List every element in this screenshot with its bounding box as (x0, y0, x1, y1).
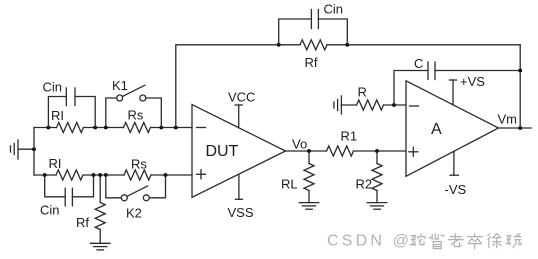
node K2 left stub dot (104, 173, 108, 177)
node Vo (307, 149, 311, 153)
wire lower rail segment 2 (83, 174, 124, 176)
wire lower rail segment 1 (34, 174, 56, 176)
resistor R1 (327, 146, 354, 156)
ground (R input, sideways) (334, 96, 342, 114)
svg-text:Cin: Cin (43, 80, 63, 95)
resistor RI (upper) (57, 123, 84, 133)
watermark glyph 骁 (506, 234, 521, 248)
watermark glyph 背 (429, 234, 444, 249)
capacitor C (feedback of A) (394, 62, 520, 105)
svg-text:VSS: VSS (228, 205, 254, 220)
capacitor Cin (top feedback bypass) (279, 10, 348, 45)
VSS pin (235, 174, 242, 199)
node Rf left dot (277, 43, 281, 47)
resistor RI (lower) (56, 170, 83, 180)
svg-text:Rf: Rf (305, 55, 318, 70)
node Vm (518, 126, 522, 130)
switch K1 (106, 85, 162, 127)
ground (input, sideways) (11, 140, 19, 159)
wire A output to Vm (499, 127, 532, 129)
svg-text:VCC: VCC (228, 90, 255, 105)
svg-text:Rf: Rf (76, 215, 89, 230)
svg-text:+VS: +VS (460, 74, 485, 89)
node input bus junction (32, 147, 36, 151)
svg-text:R: R (358, 85, 367, 100)
plus sign (A) (409, 147, 418, 156)
svg-text:RL: RL (281, 177, 298, 192)
wire top feedback right segment (327, 44, 520, 46)
op-amp U1 DUT triangle (192, 105, 286, 198)
node K1 right stub dot (159, 126, 163, 130)
wire upper rail segment 3 (151, 127, 193, 129)
svg-text:Rs: Rs (128, 108, 144, 123)
minus sign (DUT) (197, 127, 206, 129)
wire top feedback left segment (176, 45, 300, 128)
node C feedback tap (392, 103, 396, 107)
svg-text:R1: R1 (341, 129, 358, 144)
node K1 left stub dot (104, 126, 108, 130)
ground (under R2) (367, 203, 387, 210)
capacitor Cin (upper bypass) (48, 88, 95, 128)
ground (under Rf) (91, 243, 111, 250)
plus sign (DUT) (197, 170, 206, 179)
watermark glyph 驼 (410, 234, 425, 246)
wire ground to R (341, 104, 356, 106)
svg-text:RI: RI (51, 108, 64, 123)
wire lower rail segment 3 (151, 174, 192, 176)
watermark glyph 徐 (488, 234, 501, 248)
wire DUT output to node Vo (286, 150, 327, 152)
switch K2 (106, 175, 166, 201)
node Rf tap dot (98, 173, 102, 177)
wire R1 to op-amp A plus input (354, 150, 407, 152)
node upper rail left dot (47, 126, 51, 130)
svg-text:Cin: Cin (324, 2, 344, 17)
svg-text:Vo: Vo (292, 137, 307, 152)
+VS pin (450, 80, 457, 105)
svg-text:Rs: Rs (131, 157, 147, 172)
svg-text:C: C (414, 56, 423, 71)
VCC pin (235, 105, 242, 128)
resistor Rs (upper) (124, 123, 151, 133)
node Cin upper right stub dot (93, 126, 97, 130)
capacitor Cin (lower bypass) (45, 175, 94, 206)
svg-text:CSDN @: CSDN @ (327, 233, 412, 250)
op-amp U2 A triangle (406, 81, 499, 177)
svg-text:Vm: Vm (498, 112, 518, 127)
node feedback tap dot (174, 126, 178, 130)
svg-text:R2: R2 (356, 177, 373, 192)
wire ground to input bus (18, 148, 34, 150)
node K2 right stub dot (164, 173, 168, 177)
-VS pin (450, 152, 458, 175)
svg-text:A: A (431, 121, 442, 138)
resistor Rf (to ground) (95, 175, 105, 243)
resistor R2 (to ground) (372, 151, 382, 203)
svg-text:K2: K2 (126, 206, 142, 221)
watermark glyph 老 (448, 234, 463, 247)
wire upper rail segment 1 (34, 127, 57, 129)
resistor Rs (lower) (124, 170, 151, 180)
wire right feedback bus (519, 45, 521, 128)
svg-text:K1: K1 (112, 78, 128, 93)
resistor Rf (top feedback) (300, 40, 327, 50)
node C-to-bus junction (518, 69, 522, 73)
wire upper rail segment 2 (84, 127, 124, 129)
svg-text:-VS: -VS (445, 182, 467, 197)
node Cin lower right stub dot (92, 173, 96, 177)
svg-text:RI: RI (49, 156, 62, 171)
node lower rail left dot (43, 173, 47, 177)
ground (under RL) (299, 203, 319, 210)
wire R to op-amp A minus input (384, 104, 407, 106)
resistor R (357, 100, 384, 110)
node Rf right dot (345, 43, 349, 47)
svg-text:DUT: DUT (206, 143, 239, 160)
minus sign (A) (410, 105, 419, 107)
resistor RL (to ground) (304, 151, 314, 203)
wire input bus vertical (33, 128, 35, 176)
watermark glyph 卒 (468, 234, 483, 249)
svg-text:Cin: Cin (40, 203, 60, 218)
node R2 tap (375, 149, 379, 153)
